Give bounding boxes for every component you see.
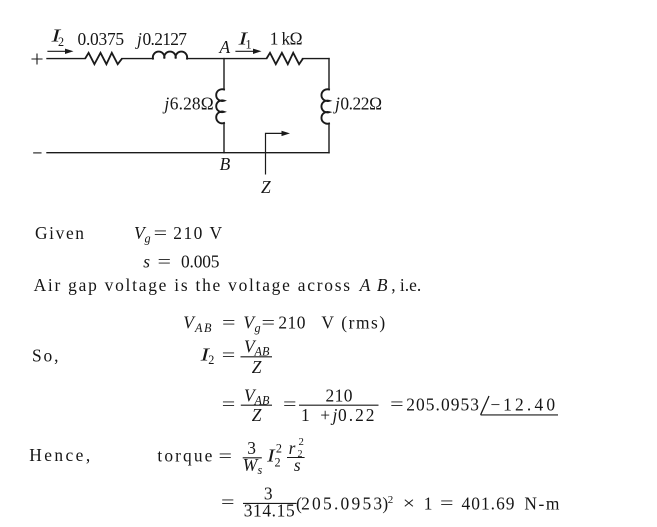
svg-text:Given: Given — [35, 223, 84, 243]
svg-text:2: 2 — [299, 436, 304, 448]
wire bottom from negative terminal to right corner — [47, 152, 329, 154]
svg-text:g: g — [255, 321, 261, 335]
svg-text:=: = — [440, 493, 454, 513]
inductor j6.28 coil vertical — [216, 89, 224, 123]
inductor j0.2127 coil — [153, 52, 187, 59]
wire right branch lower — [328, 124, 330, 153]
svg-text:N-m: N-m — [524, 494, 559, 514]
svg-text:V: V — [210, 223, 223, 243]
svg-text:=: = — [219, 446, 233, 466]
svg-text:1: 1 — [424, 494, 433, 514]
svg-text:V: V — [321, 312, 334, 332]
svg-text:=: = — [222, 345, 236, 365]
resistor 1 kOhm zigzag — [267, 53, 303, 64]
svg-text:=: = — [222, 312, 236, 332]
inductor j0.22 coil vertical — [321, 89, 329, 123]
svg-text:1: 1 — [246, 38, 252, 52]
svg-text:6.28Ω: 6.28Ω — [170, 94, 214, 114]
wire from inductor j0.2127 through node A to resistor 1 kOhm — [187, 58, 267, 60]
svg-text:0.2127: 0.2127 — [143, 29, 188, 49]
wire between resistor 0.0375 and inductor j0.2127 — [122, 58, 153, 60]
svg-text:torque: torque — [157, 446, 212, 466]
svg-text:j: j — [331, 405, 338, 425]
svg-text:s: s — [258, 463, 263, 477]
svg-text:j: j — [135, 29, 142, 49]
svg-text:0.0375: 0.0375 — [78, 29, 125, 49]
wire from resistor 1 kOhm to top right corner — [303, 58, 330, 60]
svg-text:Z: Z — [261, 177, 271, 197]
svg-text:210: 210 — [278, 312, 305, 332]
svg-text:205.0953: 205.0953 — [406, 395, 479, 415]
current arrow I2 head — [65, 49, 74, 54]
svg-text:210: 210 — [173, 223, 202, 243]
resistor 0.0375 zigzag — [85, 53, 122, 64]
svg-text:, i.e.: , i.e. — [391, 275, 421, 295]
svg-text:s: s — [143, 252, 150, 272]
svg-text:Z: Z — [252, 357, 262, 377]
terminal - (negative input) — [34, 152, 41, 154]
wire right branch upper — [328, 59, 330, 90]
svg-text:2: 2 — [58, 35, 64, 49]
svg-text:j: j — [333, 94, 340, 114]
svg-text:Hence,: Hence, — [29, 445, 90, 465]
wire from inductor j6.28 down to node B — [223, 123, 225, 153]
svg-text:B: B — [220, 154, 231, 174]
svg-text:=: = — [154, 223, 168, 243]
current arrow I1 head — [253, 49, 262, 54]
wire from node A down to inductor j6.28 — [223, 59, 225, 90]
svg-text:0.22Ω: 0.22Ω — [340, 94, 382, 114]
svg-text:0.005: 0.005 — [181, 252, 220, 272]
wire top left segment — [47, 58, 85, 60]
svg-text:j: j — [162, 94, 169, 114]
svg-text:1 kΩ: 1 kΩ — [270, 29, 303, 49]
svg-text:=: = — [221, 492, 235, 512]
svg-text:2: 2 — [275, 456, 281, 470]
svg-text:2: 2 — [388, 494, 394, 506]
svg-text:g: g — [145, 232, 151, 246]
svg-text:=: = — [390, 394, 404, 414]
svg-text:1 +: 1 + — [301, 405, 330, 425]
svg-text:12.40: 12.40 — [503, 395, 555, 415]
svg-text:So,: So, — [32, 345, 59, 365]
svg-text:=: = — [283, 394, 297, 414]
svg-text:=: = — [158, 252, 172, 272]
svg-text:=: = — [262, 312, 276, 332]
terminal + (positive input) — [32, 54, 42, 64]
impedance arrow Z head — [282, 131, 291, 136]
svg-text:(rms): (rms) — [341, 312, 385, 332]
svg-text:AB: AB — [359, 275, 388, 295]
svg-text:W: W — [243, 455, 259, 475]
svg-text:s: s — [294, 455, 301, 475]
svg-text:A: A — [219, 37, 231, 57]
svg-text:205.0953: 205.0953 — [301, 494, 382, 514]
current arrow I1 shaft — [236, 50, 254, 52]
svg-text:−: − — [491, 395, 501, 415]
svg-text:=: = — [222, 394, 236, 414]
svg-text:2: 2 — [276, 442, 282, 456]
svg-text:2: 2 — [208, 353, 214, 367]
svg-text:314.15: 314.15 — [244, 501, 295, 521]
current arrow I2 shaft — [48, 50, 66, 52]
svg-text:Air gap voltage is the voltage: Air gap voltage is the voltage across — [34, 275, 351, 295]
svg-text:AB: AB — [194, 321, 212, 335]
svg-text:401.69: 401.69 — [462, 494, 515, 514]
svg-text:Z: Z — [252, 405, 262, 425]
svg-text:210: 210 — [326, 385, 353, 405]
svg-text:×: × — [403, 493, 415, 513]
impedance arrow Z elbow — [266, 133, 283, 174]
svg-text:0.22: 0.22 — [338, 405, 375, 425]
